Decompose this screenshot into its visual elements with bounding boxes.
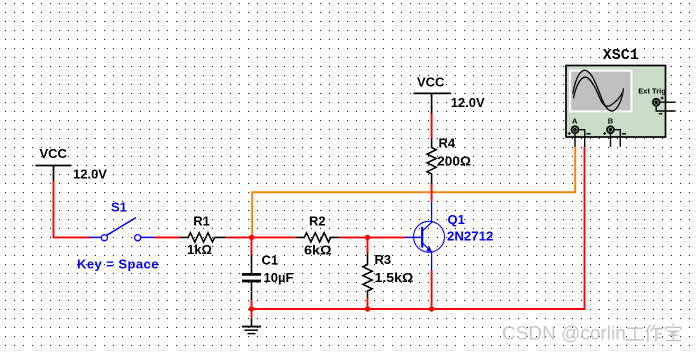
wire R2 to node C [340, 236, 368, 238]
svg-text:2N2712: 2N2712 [447, 228, 493, 243]
node C [365, 235, 370, 240]
wire Q1 collector to R4 [431, 183, 433, 202]
wire bottom rail [252, 147, 585, 310]
wire Q1 emitter to bottom rail [431, 271, 433, 310]
svg-text:S1: S1 [111, 200, 127, 215]
svg-text:R4: R4 [439, 135, 456, 150]
svg-text:1kΩ: 1kΩ [187, 242, 212, 257]
wire C1 to node B [251, 300, 253, 309]
wire orange scope channel A net [252, 147, 575, 237]
svg-text:R2: R2 [309, 213, 326, 228]
wire node A to R2 [252, 236, 297, 238]
node A [249, 235, 254, 240]
svg-text:1.5kΩ: 1.5kΩ [375, 270, 414, 285]
svg-text:6kΩ: 6kΩ [304, 242, 332, 257]
svg-text:Key = Space: Key = Space [77, 257, 159, 272]
transistor Q1 [405, 201, 445, 271]
svg-text:10µF: 10µF [264, 270, 294, 285]
svg-text:B: B [608, 116, 614, 125]
svg-text:R3: R3 [375, 252, 392, 267]
node B [249, 306, 254, 311]
terminal Ext Trig [653, 97, 676, 114]
svg-text:200Ω: 200Ω [437, 154, 471, 169]
capacitor C1 [242, 255, 261, 302]
svg-text:Ext Trig: Ext Trig [638, 86, 666, 95]
switch S1 [90, 218, 155, 241]
svg-text:C1: C1 [262, 252, 279, 267]
resistor R2 [296, 233, 339, 242]
svg-text:A: A [572, 116, 578, 125]
svg-text:VCC: VCC [417, 74, 445, 89]
wire R3 to bottom rail [367, 298, 369, 310]
ground [242, 309, 261, 334]
svg-text:12.0V: 12.0V [451, 95, 485, 110]
svg-text:XSC1: XSC1 [603, 47, 639, 64]
node E [429, 306, 434, 311]
wire R4 to VCC2 [431, 113, 433, 139]
svg-text:VCC: VCC [40, 146, 68, 161]
svg-text:R1: R1 [193, 213, 210, 228]
svg-text:CSDN @corlin: CSDN @corlin [502, 323, 626, 344]
power VCC1 [36, 146, 108, 182]
resistor R1 [180, 233, 226, 242]
watermark CSDN [502, 323, 681, 344]
node D [365, 306, 370, 311]
wire node C down to R3 [367, 237, 369, 253]
resistor R4 [427, 138, 436, 184]
oscilloscope XSC1 [566, 47, 676, 147]
wire node C to Q1 base [368, 236, 406, 238]
svg-text:12.0V: 12.0V [73, 166, 107, 181]
wire S1 to R1 [154, 236, 181, 238]
wire VCC1 to S1 [54, 181, 91, 237]
resistor R3 [363, 253, 372, 298]
svg-text:Q1: Q1 [448, 212, 465, 227]
power VCC2 [414, 74, 486, 113]
wire R1 to node A [226, 236, 252, 238]
wire node A down to C1 [251, 237, 253, 255]
